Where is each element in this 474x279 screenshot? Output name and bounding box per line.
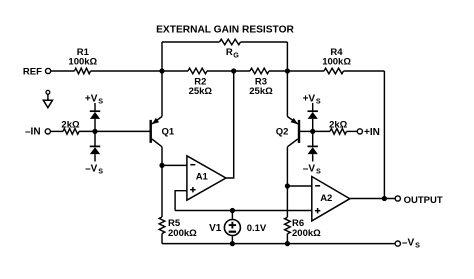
svg-text:G: G — [233, 51, 239, 60]
wire: RG bracket right vertical — [286, 42, 288, 71]
resistor 2k left — [63, 129, 79, 135]
wire: -IN node to D2 — [94, 131, 96, 146]
node output/R4 junction — [382, 196, 387, 201]
wire: A2 inverting input — [287, 185, 311, 187]
svg-text:–V: –V — [402, 237, 415, 248]
resistor 2k right — [330, 129, 347, 135]
wire: +IN node to 2k — [313, 130, 330, 132]
diode D2 clamp to -VS (left) — [90, 145, 100, 147]
svg-text:S: S — [415, 240, 420, 249]
wire: R4 to right corner — [344, 70, 385, 72]
svg-text:S: S — [316, 96, 321, 105]
resistor R4 — [324, 68, 344, 74]
wire: RG bracket top left — [162, 41, 220, 43]
wire: R2 to R3 — [207, 70, 250, 72]
svg-text:–IN: –IN — [25, 127, 41, 138]
wire: R1 to R2 — [91, 70, 189, 72]
svg-text:0.1V: 0.1V — [247, 223, 267, 234]
node R6 bottom junction — [285, 241, 290, 246]
resistor R6 — [286, 186, 288, 217]
node R3/R4/RG/Q2e junction — [285, 68, 290, 73]
resistor R2 — [188, 68, 207, 74]
svg-text:REF: REF — [23, 67, 42, 78]
svg-text:100kΩ: 100kΩ — [68, 56, 97, 67]
svg-text:+IN: +IN — [364, 127, 380, 138]
wire: D2 to -VS stub — [94, 154, 96, 161]
resistor RG — [220, 39, 241, 45]
svg-text:EXTERNAL GAIN RESISTOR: EXTERNAL GAIN RESISTOR — [156, 25, 294, 36]
svg-text:+V: +V — [303, 94, 316, 105]
diode D3 clamp to +VS (right) — [308, 110, 318, 112]
terminal +IN — [357, 129, 362, 134]
wire: D1 to -IN node — [94, 119, 96, 131]
svg-text:S: S — [316, 167, 321, 176]
node +IN/diodes junction — [310, 129, 315, 134]
svg-text:S: S — [98, 96, 103, 105]
diode D1 clamp to +VS (left) — [90, 110, 100, 112]
wire: RG bracket left vertical — [161, 42, 163, 71]
diode D4 clamp to -VS (right) — [308, 145, 318, 147]
wire: +IN node to D4 — [312, 131, 314, 146]
node Q1c/A1-/R5 junction — [159, 163, 164, 168]
wire: left +VS stub — [94, 103, 96, 111]
op-amp A1 — [187, 156, 226, 200]
terminal -VS bottom — [395, 241, 400, 246]
svg-text:–V: –V — [85, 164, 98, 175]
wire: -IN lead — [51, 130, 63, 132]
node R1/R2/RG/Q1e junction — [159, 68, 164, 73]
svg-text:2kΩ: 2kΩ — [61, 120, 80, 131]
node -IN/diodes junction — [92, 129, 97, 134]
transistor Q2 — [298, 120, 300, 143]
svg-text:Q2: Q2 — [276, 126, 289, 137]
terminal REF — [46, 68, 51, 73]
node Q2c/A2-/R6 junction — [285, 183, 290, 188]
svg-text:V1: V1 — [209, 223, 222, 234]
wire: common + rail to A2 — [175, 210, 312, 212]
svg-text:R: R — [226, 47, 233, 58]
wire: right +VS stub — [312, 103, 314, 111]
terminal OUTPUT — [395, 196, 400, 201]
wire: REF lead — [51, 70, 75, 72]
svg-text:200kΩ: 200kΩ — [168, 228, 197, 239]
resistor R3 — [250, 68, 269, 74]
ground — [46, 90, 50, 94]
voltage source V1 — [231, 211, 233, 220]
wire: 2k to Q1 base — [79, 130, 150, 132]
node V1 top junction — [230, 208, 235, 213]
wire: D4 to -VS stub — [312, 154, 314, 161]
wire: D3 to +IN node — [312, 119, 314, 131]
resistor R5 — [161, 165, 163, 217]
transistor Q1 — [149, 120, 151, 143]
svg-text:S: S — [98, 167, 103, 176]
wire: right vertical feedback to output node — [383, 71, 385, 199]
wire: A1 inverting input — [162, 164, 187, 166]
wire: 2k to +IN terminal — [347, 130, 358, 132]
svg-text:Q1: Q1 — [162, 126, 175, 137]
svg-text:A1: A1 — [196, 171, 209, 182]
wire: R3 to R4 — [269, 70, 324, 72]
svg-text:OUTPUT: OUTPUT — [404, 195, 443, 206]
svg-text:+V: +V — [85, 94, 98, 105]
svg-text:25kΩ: 25kΩ — [249, 86, 273, 97]
wire: A1 non-inverting routing — [175, 191, 187, 211]
wire: A1 output up to R2/R3 node — [226, 71, 234, 178]
terminal -IN — [45, 129, 50, 134]
svg-text:100kΩ: 100kΩ — [322, 56, 351, 67]
node V1 bottom junction — [230, 241, 235, 246]
svg-text:2kΩ: 2kΩ — [329, 120, 348, 131]
svg-text:A2: A2 — [320, 193, 332, 204]
wire: bottom rail — [162, 243, 395, 245]
node R2/R3/A1out junction — [231, 68, 236, 73]
resistor R1 — [75, 68, 91, 74]
op-amp A2 — [312, 177, 350, 221]
svg-text:200kΩ: 200kΩ — [292, 228, 321, 239]
svg-text:25kΩ: 25kΩ — [189, 86, 213, 97]
svg-text:–V: –V — [303, 164, 316, 175]
wire: A2 output to OUTPUT — [350, 198, 395, 200]
wire: RG bracket top right — [241, 41, 288, 43]
